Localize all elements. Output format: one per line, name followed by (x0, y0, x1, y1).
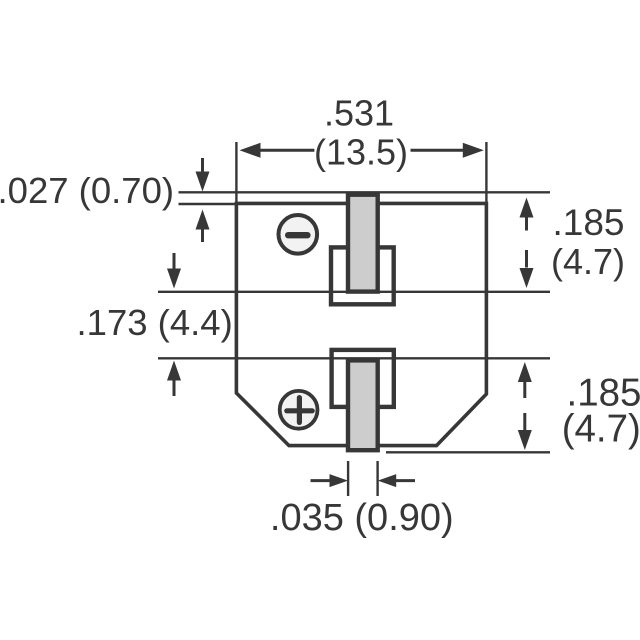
svg-text:.035 (0.90): .035 (0.90) (270, 497, 454, 539)
svg-text:(13.5): (13.5) (314, 132, 408, 173)
svg-text:(4.7): (4.7) (551, 241, 625, 282)
svg-text:.027 (0.70): .027 (0.70) (0, 170, 174, 211)
svg-text:.531: .531 (324, 93, 394, 134)
svg-text:.185: .185 (552, 202, 624, 243)
svg-text:(4.7): (4.7) (562, 408, 640, 451)
svg-text:.173 (4.4): .173 (4.4) (77, 302, 233, 343)
